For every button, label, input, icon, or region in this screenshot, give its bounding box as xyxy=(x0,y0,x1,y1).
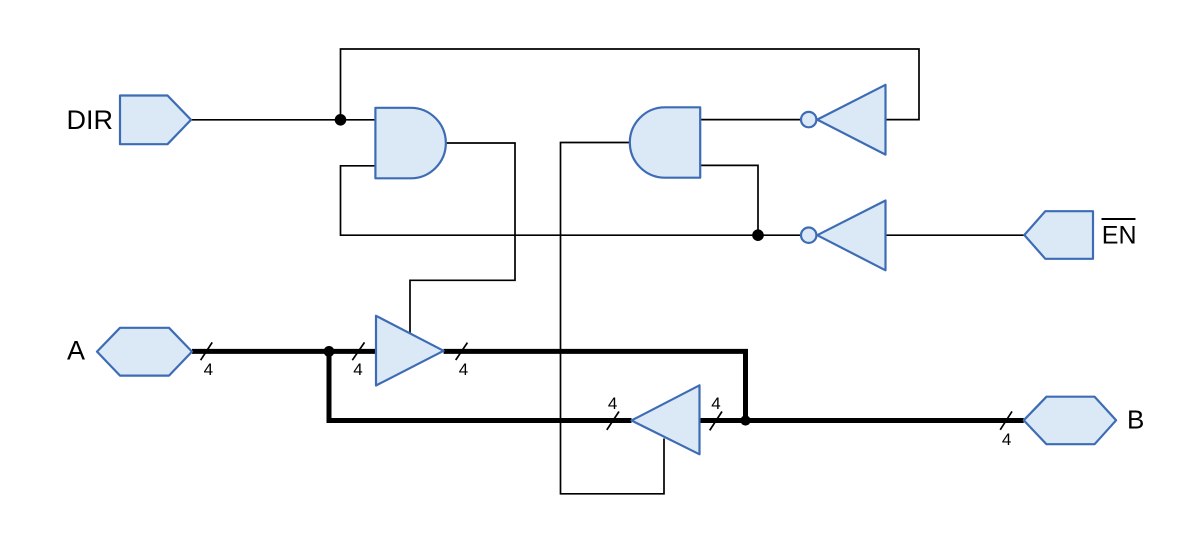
port A xyxy=(97,328,192,376)
bus width slash at buffer U5 input xyxy=(352,342,364,360)
bus width slash at buffer U5 output xyxy=(456,343,468,360)
bus width slash at buffer U6 input xyxy=(710,412,722,431)
bus A port to buffer U5 input xyxy=(192,349,376,354)
wire EN port to inverter U4 input xyxy=(886,234,1025,236)
port B xyxy=(1024,397,1116,445)
svg-text:4: 4 xyxy=(204,360,213,379)
svg-text:B: B xyxy=(1127,405,1144,435)
wire EN net from inverter U4 output to AND U1 lower input xyxy=(341,166,801,235)
port DIR xyxy=(120,96,191,145)
port EN xyxy=(1024,211,1093,259)
bus A junction down and right to buffer U6 output xyxy=(329,351,632,420)
bus buffer U5 output over and down to B junction xyxy=(444,351,746,420)
node DIR junction xyxy=(335,114,347,126)
AND gate U2 (mirrored) xyxy=(630,107,700,177)
inverter U3 (top, left-pointing) xyxy=(801,85,886,155)
label EN with overline xyxy=(1102,219,1137,249)
bus width slash at A port xyxy=(201,342,213,360)
wire AND U1 output to buffer U5 enable xyxy=(410,143,515,333)
svg-text:EN: EN xyxy=(1102,221,1137,249)
AND gate U1 xyxy=(375,108,445,179)
svg-text:4: 4 xyxy=(608,394,617,413)
wire EN junction up to AND U2 lower input xyxy=(700,165,758,235)
node B junction xyxy=(740,415,750,425)
svg-text:A: A xyxy=(67,335,85,365)
node EN junction xyxy=(752,229,764,241)
wire DIR to AND U1 top input xyxy=(191,119,375,121)
svg-text:4: 4 xyxy=(353,360,362,379)
svg-text:4: 4 xyxy=(1002,430,1011,449)
inverter U4 (EN, left-pointing) xyxy=(801,201,886,271)
wire DIR feedback up and over to inverter U3 input xyxy=(341,49,920,120)
bus width slash at buffer U6 output xyxy=(607,412,619,430)
wire AND U2 output to buffer U6 enable xyxy=(561,143,665,494)
svg-text:4: 4 xyxy=(711,394,720,413)
node A junction xyxy=(324,346,335,357)
buffer U6 (B to A, left-pointing) xyxy=(632,385,700,454)
wire inverter U3 output to AND U2 top input xyxy=(700,119,800,121)
bus width slash at B port xyxy=(1000,411,1012,429)
buffer U5 (A to B, right-pointing) xyxy=(376,316,444,386)
svg-text:DIR: DIR xyxy=(67,105,114,135)
svg-text:4: 4 xyxy=(459,360,468,379)
bus B junction to port B xyxy=(700,418,1024,423)
